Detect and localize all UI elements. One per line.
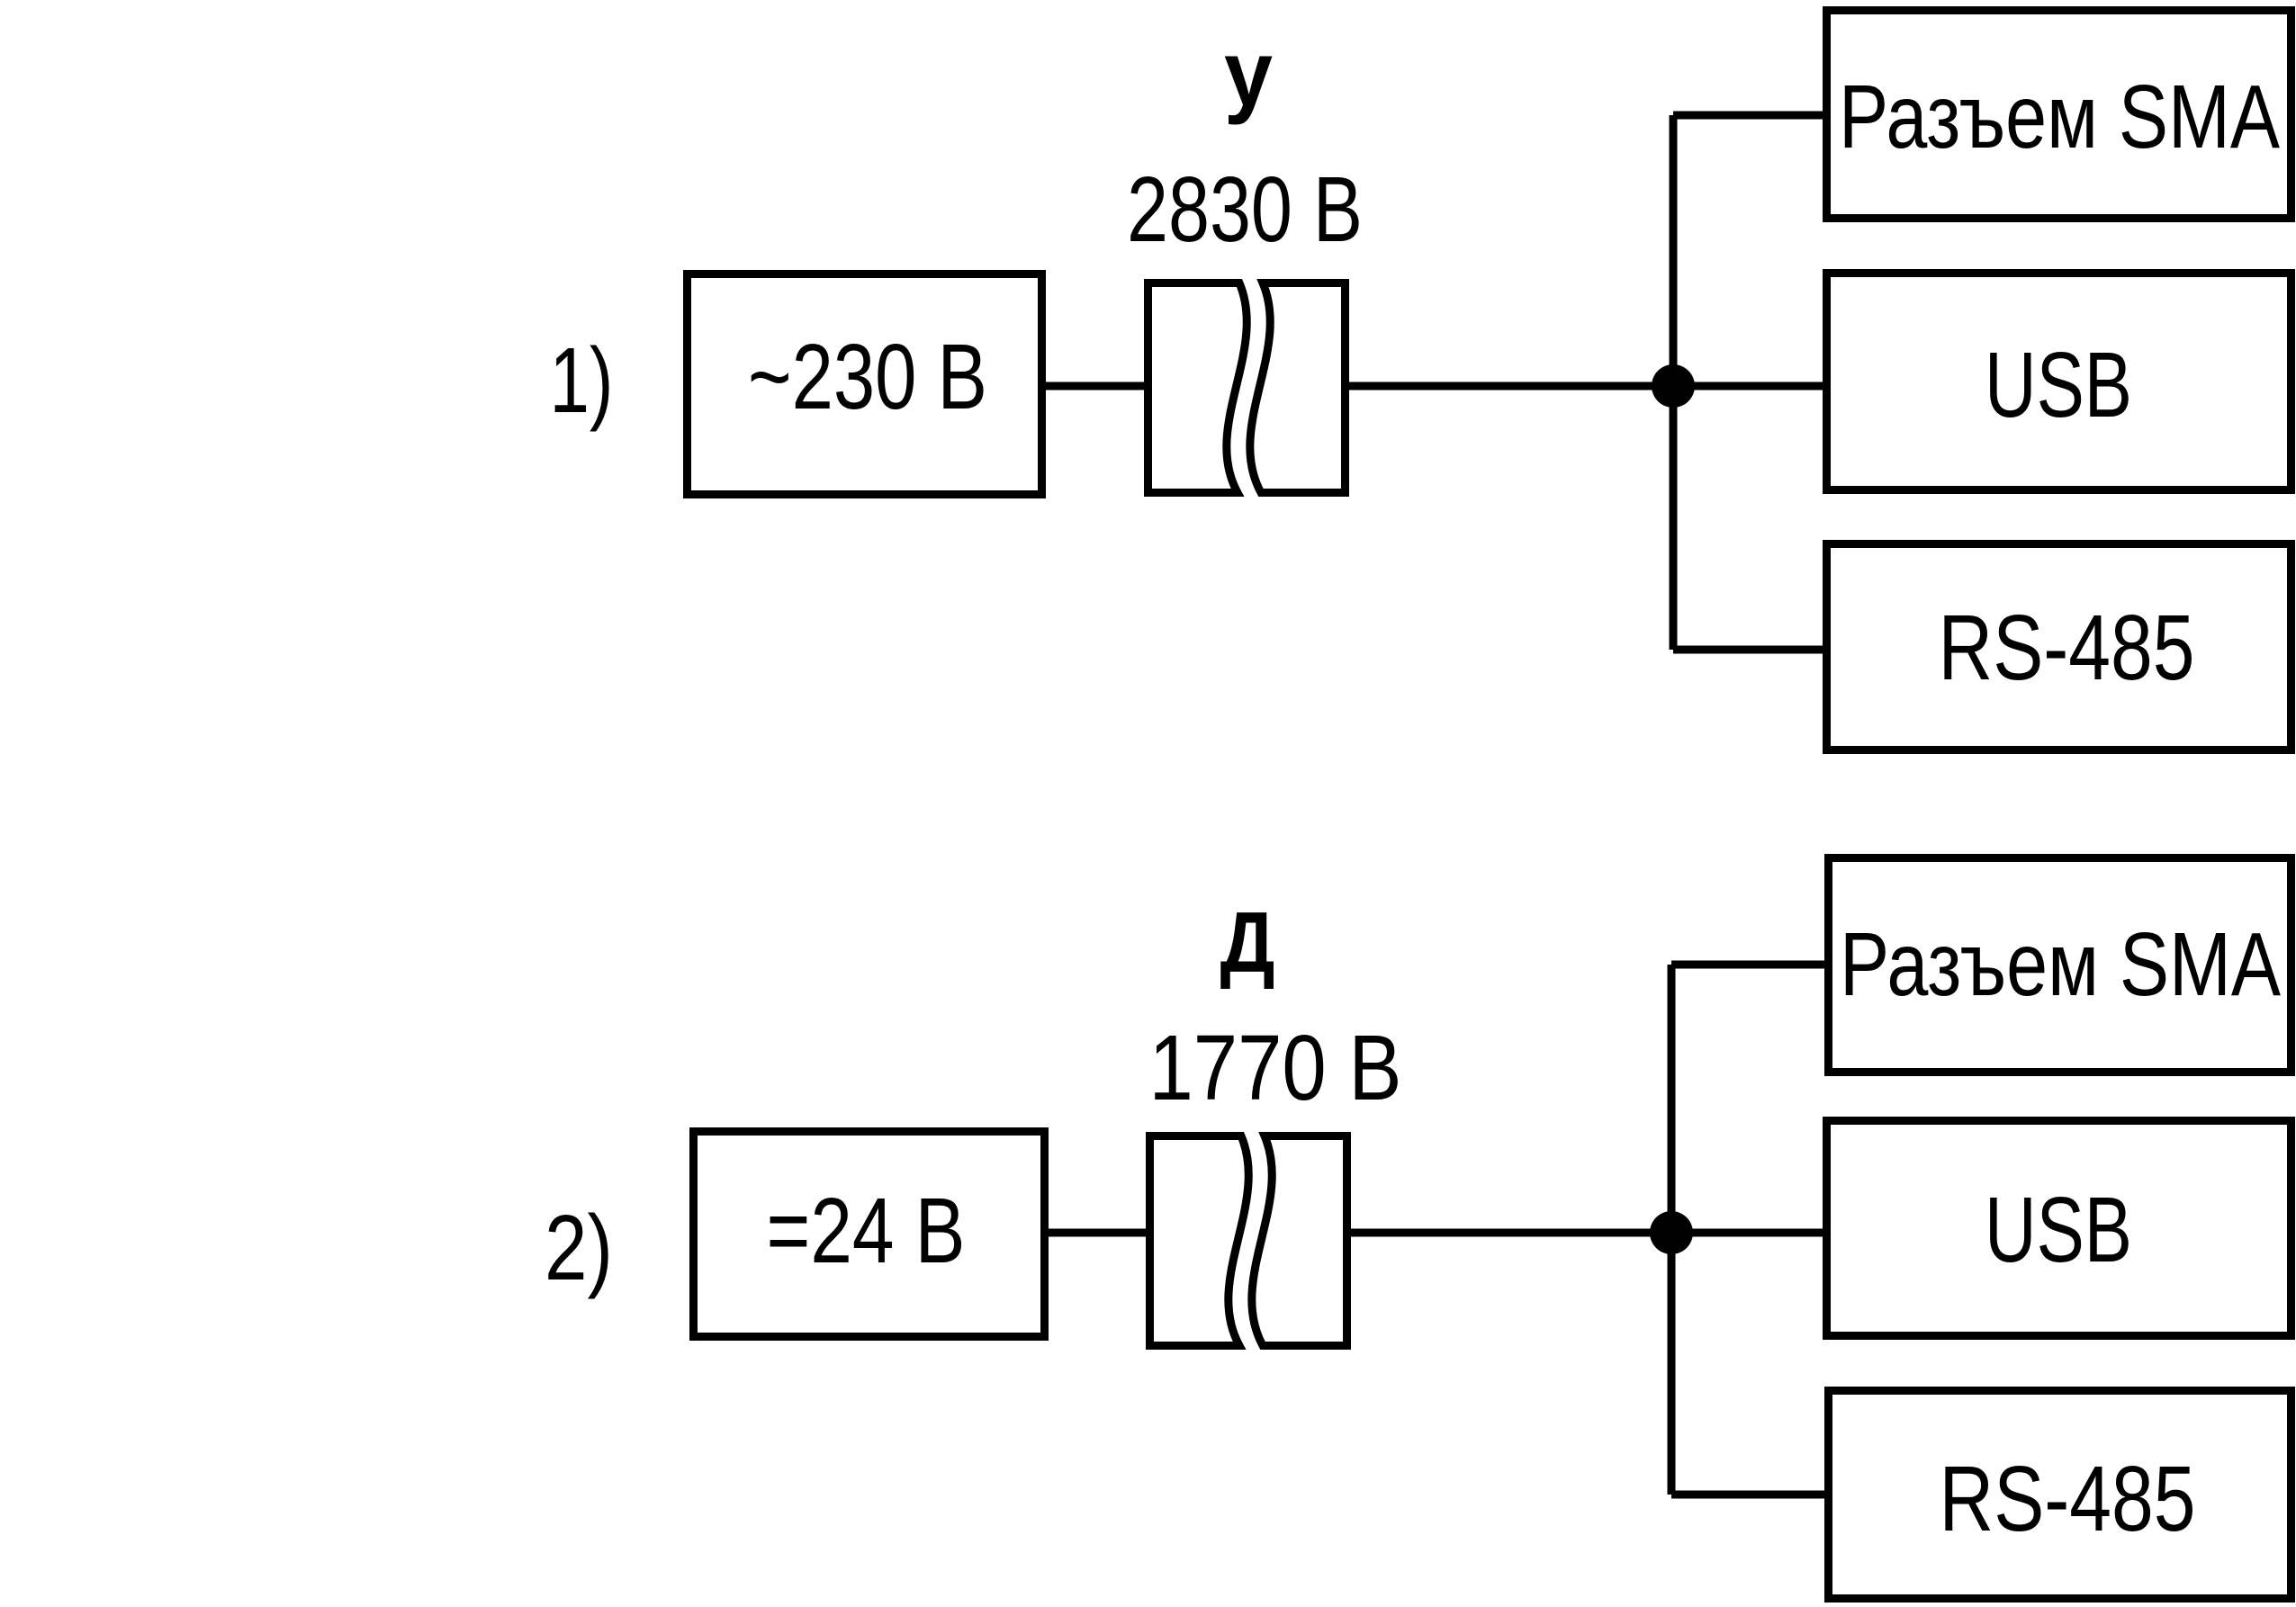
- isolation barrier D (bottom), left half: [1150, 1136, 1249, 1346]
- wire source to barrier (top): [1042, 382, 1148, 391]
- svg-text:RS-485: RS-485: [1939, 596, 2195, 699]
- svg-text:2830 В: 2830 В: [1127, 157, 1363, 261]
- isolation barrier D (bottom), right half: [1252, 1136, 1347, 1346]
- wire source to barrier (bottom): [1045, 1229, 1149, 1237]
- box USB (top): [1827, 274, 2291, 490]
- branch wire to RS-485 (bottom): [1671, 1491, 1826, 1499]
- wire barrier to USB box through junction (bottom): [1351, 1229, 1826, 1237]
- svg-text:RS-485: RS-485: [1940, 1447, 2196, 1550]
- svg-text:Разъем SMA: Разъем SMA: [1840, 914, 2281, 1015]
- svg-text:USB: USB: [1985, 333, 2132, 436]
- box RS-485 (bottom): [1829, 1391, 2291, 1599]
- source box ~230 V: [688, 274, 1042, 495]
- box RS-485 (top): [1827, 544, 2291, 750]
- source box =24 V: [694, 1132, 1045, 1337]
- svg-text:USB: USB: [1985, 1178, 2132, 1281]
- svg-text:=24 В: =24 В: [767, 1179, 966, 1282]
- svg-text:~230 В: ~230 В: [748, 325, 987, 428]
- box USB (bottom): [1827, 1121, 2291, 1336]
- vertical bus wire (bottom): [1668, 965, 1676, 1495]
- svg-text:Д: Д: [1220, 894, 1275, 991]
- branch wire to SMA (top): [1673, 112, 1824, 120]
- branch wire to SMA (bottom): [1671, 961, 1826, 969]
- junction node (top): [1652, 364, 1695, 408]
- svg-text:2): 2): [545, 1196, 613, 1299]
- svg-text:1770 В: 1770 В: [1149, 1016, 1402, 1119]
- wire barrier to USB box through junction (top): [1349, 382, 1824, 391]
- svg-text:у: у: [1224, 22, 1273, 125]
- isolation barrier U (top), right half: [1250, 283, 1346, 493]
- svg-text:Разъем SMA: Разъем SMA: [1839, 67, 2280, 167]
- svg-text:1): 1): [550, 328, 614, 432]
- vertical bus wire (top): [1670, 115, 1678, 650]
- branch wire to RS-485 (top): [1673, 646, 1824, 654]
- box SMA connector (bottom): [1829, 858, 2291, 1073]
- box SMA connector (top): [1827, 11, 2291, 219]
- junction node (bottom): [1650, 1211, 1693, 1254]
- isolation barrier U (top), left half: [1148, 283, 1247, 493]
